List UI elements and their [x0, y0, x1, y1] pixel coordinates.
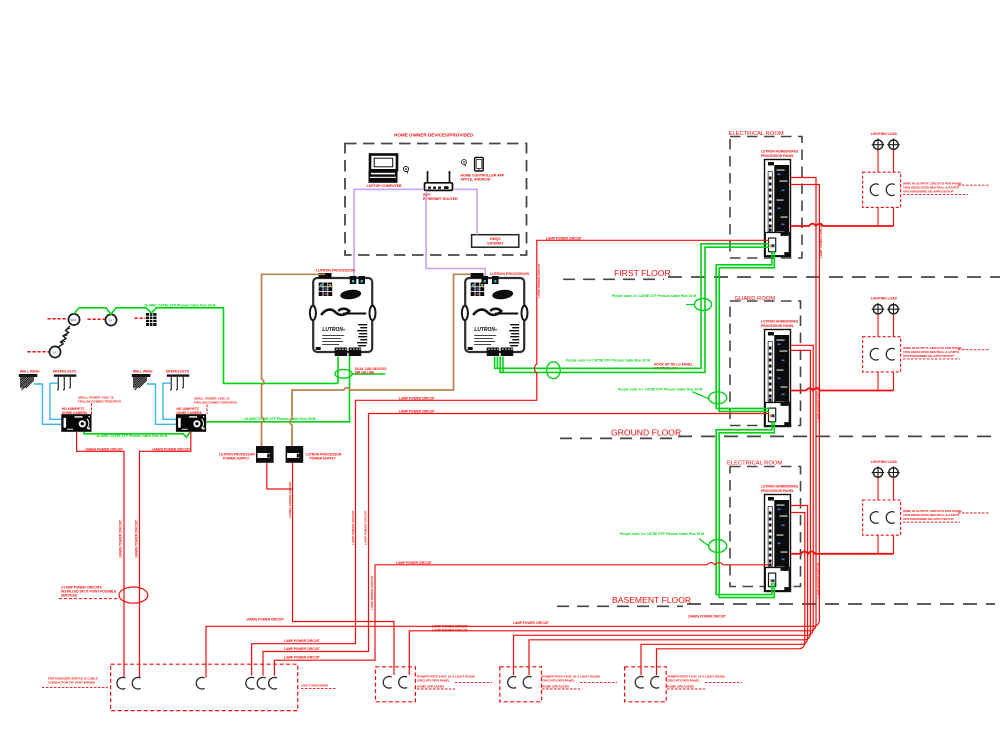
- svg-text:Purple color 4 x CAT5E STP Ple: Purple color 4 x CAT5E STP Plenum Cable …: [618, 388, 702, 392]
- svg-text:DRAPES KEYS: DRAPES KEYS: [53, 370, 76, 374]
- svg-text:LIGHT DRESSERS: LIGHT DRESSERS: [301, 683, 328, 687]
- svg-text:HOME SPEAKERS: HOME SPEAKERS: [542, 684, 569, 688]
- svg-text:14AWG POWER CIRCUIT: 14AWG POWER CIRCUIT: [135, 520, 139, 558]
- svg-text:LAMP POWER CIRCUIT: LAMP POWER CIRCUIT: [284, 656, 320, 660]
- svg-text:Purple color 4 x CAT5E STP Ple: Purple color 4 x CAT5E STP Plenum Cable …: [620, 532, 704, 536]
- svg-text:DRAPES KEYS: DRAPES KEYS: [166, 370, 189, 374]
- svg-text:CIRCUITS PER PANEL: CIRCUITS PER PANEL: [667, 678, 700, 682]
- svg-text:LAMP POWER CIRCUIT: LAMP POWER CIRCUIT: [537, 263, 541, 298]
- svg-text:LAMP POWER CIRCUIT: LAMP POWER CIRCUIT: [819, 222, 823, 258]
- svg-text:LUTRON PROCESSOR: LUTRON PROCESSOR: [490, 272, 529, 276]
- svg-text:LAMP POWER CIRCUIT: LAMP POWER CIRCUIT: [399, 410, 435, 414]
- svg-text:LUTRON PROCESSOR: LUTRON PROCESSOR: [316, 268, 355, 272]
- svg-text:LAMP POWER CIRCUIT: LAMP POWER CIRCUIT: [399, 396, 435, 400]
- svg-text:UPSTAIRS/WIRE DE APPLYSETUP: UPSTAIRS/WIRE DE APPLYSETUP: [903, 517, 954, 521]
- svg-text:HOME SPEAKERS: HOME SPEAKERS: [417, 684, 444, 688]
- svg-text:14AWG POWER CIRCUIT: 14AWG POWER CIRCUIT: [119, 520, 123, 558]
- svg-text:DOME CAMERA: DOME CAMERA: [62, 411, 88, 415]
- svg-text:LIGHTING LOAD: LIGHTING LOAD: [871, 460, 898, 464]
- svg-text:ELECTRICAL ROOM: ELECTRICAL ROOM: [727, 461, 782, 467]
- svg-text:OS: OS: [53, 350, 57, 354]
- svg-text:LAMP POWER CIRCUIT: LAMP POWER CIRCUIT: [284, 639, 320, 643]
- svg-text:UPSTAIRS/WIRE DE APPLYSETUP: UPSTAIRS/WIRE DE APPLYSETUP: [903, 354, 954, 358]
- svg-text:LAMP POWER CIRCUIT: LAMP POWER CIRCUIT: [364, 510, 368, 545]
- svg-text:WALL WASH: WALL WASH: [133, 370, 153, 374]
- svg-text:APPLE, ANDROID: APPLE, ANDROID: [461, 178, 491, 182]
- svg-text:TH: TH: [109, 318, 113, 322]
- svg-text:LAMP POWER CIRCUIT: LAMP POWER CIRCUIT: [284, 647, 320, 651]
- svg-text:Purple color 4 x CAT5E STP Ple: Purple color 4 x CAT5E STP Plenum Cable …: [612, 294, 696, 298]
- svg-text:Purple color 4 x CAT5E STP Ple: Purple color 4 x CAT5E STP Plenum Cable …: [566, 359, 650, 363]
- svg-text:SERVICES: SERVICES: [61, 594, 77, 598]
- svg-text:LAMP POWER CIRCUIT: LAMP POWER CIRCUIT: [817, 562, 821, 598]
- svg-text:LAMP POWER CIRCUIT: LAMP POWER CIRCUIT: [513, 621, 549, 625]
- svg-text:14AWG POWER CIRCUIT: 14AWG POWER CIRCUIT: [288, 481, 292, 518]
- svg-text:16 AWG CAT5E STP Plenum Cable: 16 AWG CAT5E STP Plenum Cable Run 30 M: [244, 417, 316, 421]
- svg-text:MM QB LINK: MM QB LINK: [355, 371, 375, 375]
- svg-text:BASEMENT FLOOR: BASEMENT FLOOR: [612, 595, 691, 605]
- svg-text:LAMP POWER CIRCUIT: LAMP POWER CIRCUIT: [396, 561, 432, 565]
- svg-text:UPSTAIRS/WIRE DE APPLYSETUP: UPSTAIRS/WIRE DE APPLYSETUP: [903, 189, 954, 193]
- svg-text:CONDUCTOR TIE VERT WIRING: CONDUCTOR TIE VERT WIRING: [48, 680, 96, 684]
- svg-text:POWER SUPPLY: POWER SUPPLY: [310, 457, 337, 461]
- svg-text:CIRCUITS PER PANEL: CIRCUITS PER PANEL: [417, 678, 450, 682]
- svg-text:LAMP POWER CIRCUIT: LAMP POWER CIRCUIT: [817, 386, 821, 422]
- svg-text:LAMP POWER CIRCUIT: LAMP POWER CIRCUIT: [432, 628, 468, 632]
- svg-text:LAPTOP COMPUTER: LAPTOP COMPUTER: [367, 184, 403, 188]
- svg-text:LAMP POWER CIRCUIT: LAMP POWER CIRCUIT: [351, 510, 355, 545]
- svg-text:HOME OWNER DEVICES/PROVIDED: HOME OWNER DEVICES/PROVIDED: [394, 133, 474, 138]
- svg-text:FRULON CONNECTORS/TRAY: FRULON CONNECTORS/TRAY: [78, 399, 121, 403]
- svg-text:PROCESSOR PANEL: PROCESSOR PANEL: [761, 489, 794, 493]
- svg-text:LAMP POWER CIRCUIT: LAMP POWER CIRCUIT: [370, 575, 374, 610]
- svg-text:LIGHTING LOAD: LIGHTING LOAD: [871, 132, 898, 136]
- svg-text:14AWG POWER CIRCUIT: 14AWG POWER CIRCUIT: [246, 618, 284, 622]
- svg-text:14AWG POWER CIRCUIT: 14AWG POWER CIRCUIT: [688, 615, 726, 619]
- svg-text:FRULON CONNECTORS/TRAY: FRULON CONNECTORS/TRAY: [194, 400, 237, 404]
- svg-text:WLS: WLS: [71, 318, 77, 322]
- svg-text:FIRST FLOOR: FIRST FLOOR: [614, 268, 671, 278]
- svg-text:14AWG POWER CIRCUIT: 14AWG POWER CIRCUIT: [152, 447, 190, 451]
- svg-text:GUARD ROOM: GUARD ROOM: [735, 296, 776, 302]
- svg-text:POWER SUPPLY: POWER SUPPLY: [223, 457, 250, 461]
- svg-text:ETHERNET ROUTER: ETHERNET ROUTER: [423, 197, 458, 201]
- svg-text:14AWG POWER CIRCUIT: 14AWG POWER CIRCUIT: [85, 447, 123, 451]
- svg-text:LAMP POWER CIRCUIT: LAMP POWER CIRCUIT: [546, 236, 582, 240]
- svg-text:GATEWAY: GATEWAY: [487, 242, 504, 246]
- svg-text:GROUND FLOOR: GROUND FLOOR: [611, 427, 681, 437]
- svg-text:16 AWG CAT5E STP Plenum Cable: 16 AWG CAT5E STP Plenum Cable Run 30 M: [144, 303, 216, 307]
- svg-text:HOME SPEAKERS: HOME SPEAKERS: [667, 684, 694, 688]
- svg-text:HWQS: HWQS: [490, 237, 501, 241]
- svg-text:LIGHTING LOAD: LIGHTING LOAD: [871, 297, 898, 301]
- svg-text:DOME CAMERA: DOME CAMERA: [177, 411, 203, 415]
- svg-text:PROCESSOR PANEL: PROCESSOR PANEL: [761, 324, 794, 328]
- svg-text:WALL WASH: WALL WASH: [20, 370, 40, 374]
- svg-text:CIRCUITS PER PANEL: CIRCUITS PER PANEL: [542, 678, 575, 682]
- svg-text:16 AWG CAT5E STP Plenum Cable: 16 AWG CAT5E STP Plenum Cable Run 30 M: [96, 434, 168, 438]
- svg-text:PROCESSOR PANEL: PROCESSOR PANEL: [761, 154, 794, 158]
- svg-text:ELECTRICAL ROOM: ELECTRICAL ROOM: [729, 131, 784, 137]
